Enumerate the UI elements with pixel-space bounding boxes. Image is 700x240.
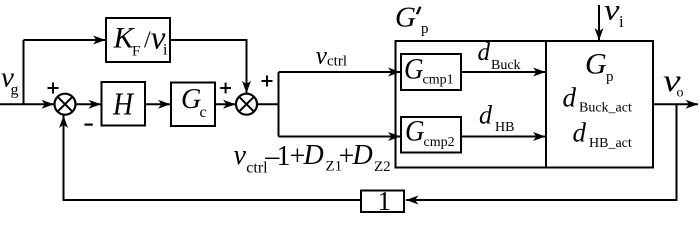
svg-text:cmp1: cmp1 (423, 72, 454, 87)
wire vg input (0, 103, 54, 105)
wire vi input arrow down (598, 5, 600, 41)
block Gp (546, 41, 653, 168)
wire vo output (653, 103, 698, 105)
svg-text:i: i (163, 41, 168, 58)
wire into Gcmp2 (279, 136, 401, 138)
svg-text:Buck: Buck (491, 58, 521, 73)
svg-text:v: v (316, 43, 328, 70)
block Gc (171, 83, 215, 127)
wire feedback down and left into gain 1 box (406, 104, 677, 200)
summer 1 X cross (58, 97, 73, 112)
svg-text:g: g (11, 81, 19, 98)
svg-text:G: G (181, 84, 201, 115)
svg-text:v: v (604, 0, 620, 27)
minus sign at summer1 feedback (85, 123, 93, 125)
wire feedback left and up into summer1 (64, 116, 362, 201)
svg-text:HB_act: HB_act (589, 136, 632, 151)
wire into KF block (24, 39, 106, 41)
svg-text:ctrl: ctrl (327, 54, 347, 70)
svg-text:d: d (573, 118, 587, 148)
svg-text:D: D (303, 140, 324, 171)
svg-text:d: d (478, 39, 491, 66)
block KF/vi (106, 18, 170, 62)
svg-text:o: o (677, 85, 684, 100)
summer 2 circle (236, 94, 257, 115)
wire dHB Gcmp2 to Gp (461, 136, 546, 138)
svg-text:D: D (352, 140, 373, 171)
box G'p outer (396, 41, 547, 168)
svg-text:i: i (619, 12, 624, 31)
summer 1 circle (55, 94, 76, 115)
summer 2 X cross (239, 97, 254, 112)
svg-text:1: 1 (277, 141, 291, 172)
plus sign at summer1 input (48, 83, 59, 94)
wire feedforward branch up (23, 40, 25, 104)
wire Gc to summer2 (215, 103, 236, 105)
block Gcmp1 (401, 54, 461, 90)
svg-text:F: F (132, 43, 140, 59)
wire H to Gc (145, 103, 171, 105)
svg-text:d: d (479, 101, 493, 130)
svg-text:c: c (200, 104, 207, 121)
block Gcmp2 (401, 117, 461, 153)
svg-text:G: G (395, 2, 416, 34)
svg-text:cmp2: cmp2 (424, 135, 455, 150)
plus sign at summer2 left input (220, 83, 231, 94)
wire KF output down into summer 2 (170, 40, 247, 93)
wire vctrl into Gcmp1 (279, 71, 401, 73)
wire summer2 output to branch point (257, 103, 279, 105)
svg-text:G: G (405, 115, 425, 148)
wire dBuck Gcmp1 to Gp (461, 71, 546, 73)
wire summer1 to H (76, 103, 102, 105)
svg-text:d: d (563, 82, 577, 112)
block H (102, 82, 146, 126)
wire branch vertical (278, 72, 280, 137)
svg-text:Buck_act: Buck_act (579, 101, 632, 116)
svg-text:HB: HB (495, 120, 514, 135)
prime of G'p (417, 7, 420, 14)
plus sign at summer2 top input (262, 76, 273, 87)
svg-text:p: p (421, 21, 429, 37)
svg-text:Z2: Z2 (374, 159, 391, 175)
svg-text:G: G (585, 48, 607, 81)
svg-text:H: H (112, 86, 135, 122)
block 1 feedback gain (361, 191, 404, 213)
svg-text:p: p (606, 69, 614, 85)
svg-text:v: v (234, 140, 247, 171)
svg-text:G: G (404, 52, 424, 85)
svg-text:1: 1 (378, 186, 392, 216)
